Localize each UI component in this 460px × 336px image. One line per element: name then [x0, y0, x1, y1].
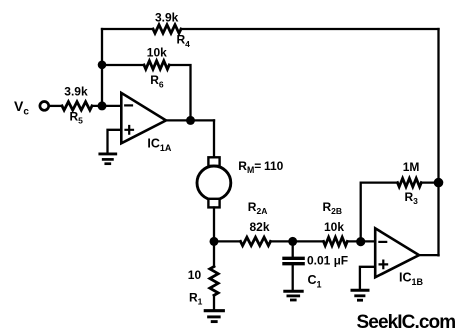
svg-text:3.9k: 3.9k	[155, 11, 179, 25]
svg-text:3.9k: 3.9k	[64, 85, 88, 99]
svg-text:SeekIC.com: SeekIC.com	[357, 312, 456, 333]
svg-text:82k: 82k	[250, 220, 270, 234]
svg-text:10k: 10k	[324, 220, 344, 234]
svg-text:RM=110: RM=110	[238, 159, 283, 175]
svg-text:0.01 μF: 0.01 μF	[307, 254, 348, 268]
svg-text:10: 10	[188, 268, 202, 282]
svg-text:1M: 1M	[403, 160, 420, 174]
svg-text:10k: 10k	[147, 46, 167, 60]
